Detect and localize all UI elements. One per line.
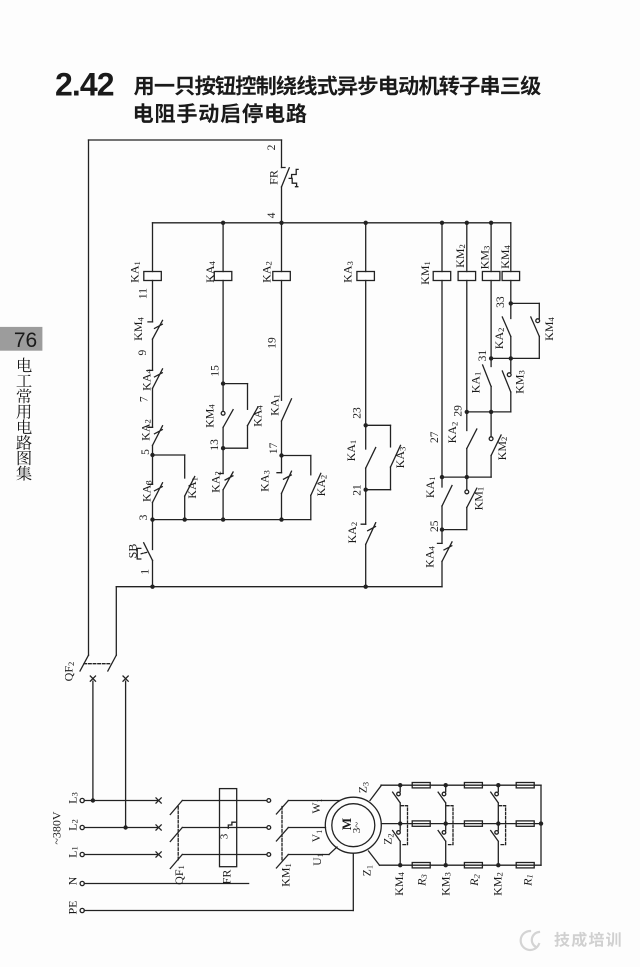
wire node 13 branch [223,447,247,449]
junction node 29 [465,410,469,414]
wire KA3 to bus 3 [281,493,283,519]
wire node 17 branch [282,455,311,457]
wire KM3 contact to node 29 [510,392,512,412]
motor ground lead to PE [352,853,354,910]
wire top supply (node 2 feed) [89,139,282,141]
wire KM1 coil to node 27 [441,281,443,478]
terminal x mark QF2 left pole [90,676,95,681]
svg-text:2.42: 2.42 [55,67,114,103]
contact KA1 NO (19-17) [282,399,292,421]
sidebar char 路 [16,435,31,450]
wire branch to KA4 contact [247,384,249,410]
svg-text:29: 29 [453,405,465,417]
wire control bottom bus (node 1) [116,586,442,588]
wire KA3 contact to node 21 [390,467,392,490]
junction node 27 [440,475,444,479]
contact KA2 NC (7-5) [148,426,163,446]
sidebar char 集 [16,466,31,481]
svg-text:27: 27 [429,431,441,443]
svg-text:FR: FR [267,170,281,185]
junction bus3 at c2 [221,517,225,521]
supply terminal L1 [80,852,84,856]
wire KA1 to node 17 [281,421,283,456]
wire QF1 to KM1 at y=828 [182,827,266,829]
contact KM4 NO (15-13) [223,410,233,428]
wire KA4 coil to node 15 [222,281,224,384]
relay/contactor coil KA3 [357,272,375,281]
contact KA1 NO (31-29) [483,365,492,387]
svg-text:23: 23 [351,407,363,419]
wire KA3 to node 3 [152,502,154,519]
junction node 23 [364,423,368,427]
wire bottom bus riser to QF2 right pole [115,587,117,656]
wire KA1 coil to KM4 contact (node 11) [152,281,154,322]
contact KA2 NO self-hold (17-3) [311,473,321,495]
relay/contactor coil KA1 [144,272,162,281]
watermark logo swirl [521,931,539,950]
relay/contactor coil KM2 [458,272,476,281]
svg-text:7: 7 [138,396,150,402]
junction KM2 column [496,821,500,825]
svg-text:PE: PE [66,900,80,914]
junction node 31 [489,356,493,360]
svg-text:N: N [66,876,80,885]
contact KA2 NO (29-27) [467,429,477,449]
wire rotor phase Z2 row [381,823,541,825]
wire KA2 to node 31 [510,337,512,359]
wire node 29 rail [467,411,511,413]
wire bus4 to KM3 coil [490,223,492,272]
contact KA2 NC (21-1) [361,523,376,545]
junction KM4 column [398,863,402,867]
rotor shorting contactor contacts KM3 [438,785,446,823]
junction on L3 [91,798,95,802]
wire KM4 contact to node 13 [222,427,224,448]
wire bus4 to KA4 coil [222,223,224,272]
svg-text:4: 4 [266,212,278,218]
circuit breaker QF2 (2-pole) [80,655,116,671]
wire node 3 to SB [152,520,154,550]
junction KM3 column [444,863,448,867]
wire L2 to QF1 [84,827,158,829]
wire to node 5 [152,445,154,455]
rotor star-point tie [540,785,542,865]
junction node 13 [221,446,225,450]
svg-text:21: 21 [352,484,364,496]
junction node 3 [150,517,154,521]
sidebar char 工 [17,375,32,387]
svg-text:31: 31 [477,350,489,362]
svg-text:3: 3 [138,514,150,520]
wire bus4 to KM4 coil [510,223,512,272]
wire node27 to KM1 contact [466,477,468,490]
junction node 4 at c6 [465,221,469,225]
watermark text [554,932,620,947]
title line 1 [134,75,541,95]
supply terminal L2 [80,825,84,829]
relay/contactor coil KA4 [214,272,232,281]
junction KM2 column [496,783,500,787]
wire KM3 coil to node 31 [490,281,492,359]
wire KM2 contact to node 27 [490,456,492,478]
svg-text:17: 17 [268,442,280,454]
wire rotor phase Z3 row [381,784,541,786]
motor M 3~ [325,797,381,853]
contact KA4 NC (9-7) [148,369,163,389]
wire KA4 contact to node 13 [247,426,249,449]
contactor KM1 main contacts [267,799,271,803]
contact KM3 NO self-hold (31-29) [502,371,511,392]
wire KA1 to node 25 [441,506,443,530]
wire node31 to KM3 contact [510,358,512,372]
relay/contactor coil KM4 [502,272,519,281]
wire KM4 coil to node 33 [510,281,512,304]
rotor shorting contactor contacts KM2 [491,785,499,823]
wire KA2 to node 27 [466,449,468,478]
contact KM1 NO self-hold (27-25) [467,488,477,507]
relay/contactor coil KM1 [433,272,451,281]
wire KM1 to motor U1 [288,854,329,856]
wire KA2 coil to KA1 contact (node 19) [281,281,283,401]
junction node 29 at c7 [489,410,493,414]
supply terminal L3 [80,798,84,802]
wire node33 to KA2 [510,303,512,318]
junction bus3 at KA1 branch [183,517,187,521]
rotor lead Z1 [369,851,380,865]
wire KA2 to bus 3 [222,490,224,520]
supply terminal N [80,881,84,885]
rotor lead Z3 [370,785,382,800]
wire node 7 [152,388,154,427]
junction bottom bus at c4 [364,585,368,589]
svg-text:19: 19 [266,337,278,349]
wire node 27 rail [442,476,491,478]
svg-text:2: 2 [266,144,278,150]
junction KM2 column [496,863,500,867]
junction node 1 on bottom bus [150,585,154,589]
wire node 33 branch [511,302,540,304]
wire node31 to KA1 [490,358,492,366]
junction node 31 at c8 [509,356,513,360]
junction KM3 column [444,783,448,787]
terminal x mark QF2 right pole [123,676,128,681]
relay/contactor coil KA2 [273,272,291,281]
junction node 4 at c2 [221,221,225,225]
junction node 4 at c3/FR [279,221,283,225]
wire KM1 to motor V1 [288,827,325,829]
contact KA4 NO self-hold (15-13) [248,408,258,426]
sidebar char 电 [18,358,32,373]
junction bus3 at c3 [279,517,283,521]
wire QF2 right pole to L2 [125,681,127,827]
resistor bank R3 [412,783,430,788]
junction node 27 at c6 [465,475,469,479]
wire node 2 drop to FR [281,140,283,168]
junction node 15 [221,381,225,385]
supply terminal PE [80,908,84,912]
wire control bus node 4 [153,222,511,224]
wire KA2 contact to bus 3 [310,495,312,519]
wire node 31 rail [491,357,539,359]
svg-text:76: 76 [14,329,37,352]
resistor bank R1 [516,783,534,788]
junction star tie at Z2 [539,821,543,825]
wire rotor phase Z1 row [380,864,542,866]
wire KA1 contact to bus 3 [184,496,186,519]
junction node 4 at c4 [364,221,368,225]
wire node13 to KA2 [222,448,224,473]
wire KA1 to node 21 [365,468,367,490]
junction node 17 [279,453,283,457]
contact KA3 NC (5-3) [148,483,163,503]
svg-text:9: 9 [137,349,149,355]
wire QF2 left pole to L3 [92,681,94,800]
wire QF1 to KM1 at y=854 [182,854,266,856]
x mark L3 [156,798,161,803]
wire node17 to KA3 [281,456,283,473]
x mark L1 [156,852,161,857]
sidebar char 图 [18,451,31,466]
wire bus4 to KA2 coil [281,223,283,272]
svg-text:SB: SB [125,544,139,559]
wire FR to bus 4 [281,187,283,223]
wire KA3 coil to node 23 [365,281,367,426]
wire node 21 branch [366,489,391,491]
wire node5 to KA3 [152,455,154,484]
wire KA2 to bottom bus [365,544,367,586]
contact KA2 NC (13-3) [219,472,234,490]
wire PE rail [84,910,353,912]
thermal overload relay contact FR (NC) [282,168,299,187]
svg-text:1: 1 [140,569,152,575]
svg-text:33: 33 [495,296,507,308]
motor stator lead U1 bend [329,847,337,855]
junction KM4 column [398,821,402,825]
wire bus4 to KM1 coil [441,223,443,272]
svg-text:13: 13 [209,439,221,451]
wire node23 to KA1 [365,425,367,449]
wire KA1 to node 29 [490,387,492,412]
contact KA1 NO (23-21) [366,448,376,469]
svg-text:15: 15 [209,365,221,377]
svg-text:25: 25 [429,520,441,532]
contact KM2 NO self-hold (29-27) [491,435,501,456]
wire left supply rail down to QF2 [88,140,90,655]
wire node27 to KA1 [441,477,443,487]
wire bus4 to KM2 coil [466,223,468,272]
wire control bus node 3 [153,519,311,521]
wire node21 to KA2 [365,490,367,525]
svg-text:11: 11 [138,288,150,299]
push button SB [137,543,152,561]
sidebar char 常 [17,389,32,404]
junction node 5 [150,453,154,457]
wire node 15 branch [223,383,247,385]
svg-text:~380V: ~380V [50,811,64,844]
junction node 21 [364,488,368,492]
wire branch to KA2 contact [310,456,312,475]
relay/contactor coil KM3 [482,272,500,281]
wire KM2 coil to node 29 [466,281,468,412]
thermal overload relay FR heater box [220,789,237,867]
junction node 4 at c5 [440,221,444,225]
svg-text:3: 3 [219,833,231,839]
contact KA2 NO (33-31) [502,317,511,337]
wire node 25 rail [442,529,467,531]
junction KM4 column [398,783,402,787]
contact KM4 NO self-hold (33-31) [531,317,540,336]
resistor bank R2 [464,783,482,788]
contact KA3 NO self-hold (23-21) [391,445,401,467]
wire bus4 to KA1 coil [152,223,154,272]
wire SB to node 1 [152,560,154,586]
sidebar char 用 [17,404,31,419]
sidebar page number badge 76 [0,327,42,351]
wire QF1 to KM1 at y=800 [182,800,266,802]
svg-text:FR: FR [220,870,234,885]
junction node 4 at c7 [489,221,493,225]
wire branch to KM4 contact [538,303,540,318]
contact KA4 NC (25-1) [438,542,453,562]
wire KM4 contact to node 31 [538,336,540,358]
wire branch to KA3 contact [390,425,392,447]
junction KM3 column [444,821,448,825]
wire node 5 branch [153,454,185,456]
wire KM1 to motor W1 [288,800,339,802]
x mark L2 [156,825,161,830]
wire L3 to QF1 [84,800,158,802]
junction on L2 [123,825,127,829]
circuit breaker QF1 (3-pole) [170,801,182,815]
sidebar char 电 [18,419,32,434]
wire branch to KA1 contact [184,455,186,478]
wire L1 to QF1 [84,854,158,856]
contact KA1 NO self-hold (5-3) [185,477,195,497]
rotor shorting contactor contacts KM4 [393,785,401,823]
wire node15 to KM4 contact [222,384,224,412]
junction node 25 [440,527,444,531]
wire KA4 to bottom bus [441,561,443,586]
contact KA3 NC (17-3) [277,471,292,493]
junction node 33 [509,301,513,305]
wire node29 to KM2 contact [490,412,492,437]
svg-text:5: 5 [140,449,152,455]
title line 2 [135,103,307,123]
svg-text:3~: 3~ [351,822,363,834]
wire N rail [84,883,248,885]
wire bus4 to KA3 coil [365,223,367,272]
wire node 23 branch [366,424,391,426]
wire node29 to KA2 [466,412,468,431]
wire node 9 [152,339,154,370]
wire node25 to KA4 [441,530,443,544]
contact KM4 NC (11-9) [148,320,163,339]
contact KA1 NO (27-25) [442,486,452,507]
wire KM1 contact to node 25 [466,508,468,530]
